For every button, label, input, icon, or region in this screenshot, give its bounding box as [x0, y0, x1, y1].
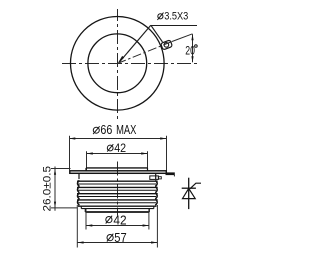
- bottom pole face: [85, 211, 149, 213]
- ceramic bottom edge: [78, 205, 157, 207]
- ext lines ø66: [69, 136, 71, 171]
- cathode bar: [182, 187, 196, 189]
- lead: [188, 178, 190, 209]
- pole sides: [85, 168, 87, 171]
- ext lines ø57: [76, 205, 78, 248]
- vertical centerline: [117, 9, 119, 121]
- dim line ø42 bottom: [86, 225, 149, 227]
- leader line to hole: [151, 25, 163, 42]
- ext lines ø42 top: [86, 151, 88, 170]
- dim ø42 top text: [107, 145, 113, 151]
- bottom pole top edge: [81, 208, 154, 210]
- ceramic fin 3: [77, 193, 158, 199]
- ceramic collar sides: [78, 173, 80, 179]
- dim line ø42 top: [87, 153, 148, 155]
- horizontal centerline: [62, 63, 200, 65]
- dim ø57 text: [107, 235, 113, 241]
- label underline: [151, 25, 197, 27]
- top pole face: [86, 167, 148, 169]
- gate boss capsule: [161, 40, 173, 50]
- svg-text:20: 20: [185, 44, 195, 58]
- gate tube protruding right: [166, 172, 175, 175]
- dim ø66 MAX text: [93, 127, 99, 133]
- ceramic fin 1: [77, 180, 158, 186]
- svg-text:42: 42: [114, 141, 126, 155]
- outer circle (flange ø66): [71, 17, 165, 111]
- diameter symbol for 3.5: [158, 14, 163, 19]
- svg-text:3.5X3: 3.5X3: [164, 11, 188, 23]
- ceramic fin 4: [77, 199, 158, 205]
- svg-text:26.0±0.5: 26.0±0.5: [41, 166, 53, 212]
- ext lines ø42 bottom: [85, 209, 87, 230]
- leader line to center: [120, 25, 151, 62]
- top flange band ø66: [70, 171, 167, 174]
- bottom flange sides: [80, 206, 82, 208]
- side view centerline: [117, 162, 119, 216]
- dim 26.0 +-0.5 vertical: [54, 167, 56, 211]
- triangle: [183, 188, 196, 198]
- svg-text:66: 66: [100, 123, 112, 137]
- dim line ø66: [69, 138, 167, 140]
- angle arrow top: [191, 34, 193, 40]
- gate hole ø3.5: [164, 43, 169, 48]
- ext lines 26.0: [51, 168, 71, 170]
- ceramic fin 2: [77, 187, 158, 193]
- bottom pole sides: [84, 209, 86, 212]
- gate line: [190, 183, 201, 189]
- angle dimension line: [192, 34, 194, 62]
- inner circle (pole ø42): [88, 34, 147, 93]
- gate ferrule block: [150, 176, 159, 180]
- degree mark: [195, 45, 198, 48]
- dim ø42 bottom text: [106, 217, 112, 223]
- angle arrow bottom: [191, 56, 193, 62]
- dim line ø57: [77, 242, 157, 244]
- gate ferrule tab: [158, 177, 161, 179]
- svg-text:MAX: MAX: [116, 123, 137, 137]
- 20deg axis dash-dot line: [117, 42, 172, 64]
- leader arrowhead at center: [118, 56, 124, 63]
- 20deg extension solid segment: [172, 34, 193, 42]
